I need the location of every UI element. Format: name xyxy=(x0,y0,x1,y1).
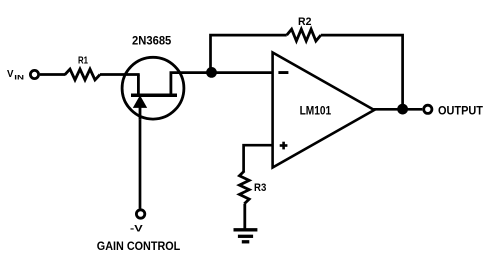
svg-text:-V: -V xyxy=(130,223,144,234)
svg-text:LM101: LM101 xyxy=(300,104,332,118)
wire R2 right down to node B xyxy=(321,35,403,109)
plus sign non-inverting input xyxy=(280,142,288,150)
label VIN xyxy=(7,69,24,81)
wire R1 to Q1 source xyxy=(100,73,140,76)
svg-text:IN: IN xyxy=(14,74,24,81)
svg-text:R2: R2 xyxy=(298,16,311,28)
svg-text:R1: R1 xyxy=(78,56,88,67)
wire node A up to R2 left xyxy=(211,35,287,73)
svg-text:OUTPUT: OUTPUT xyxy=(438,105,483,117)
op-amp U1 LM101 xyxy=(273,53,375,168)
transistor Q1 2N3685 (FET) xyxy=(122,57,184,120)
node A junction dot xyxy=(206,67,217,78)
svg-text:2N3685: 2N3685 xyxy=(132,34,172,48)
input terminal VIN xyxy=(30,70,38,78)
wire VIN terminal to R1 xyxy=(40,73,66,76)
wire non-inverting input to R3 xyxy=(244,145,273,171)
svg-text:R3: R3 xyxy=(254,182,266,194)
ground xyxy=(234,230,258,242)
svg-text:V: V xyxy=(7,69,14,80)
wire R3 to ground xyxy=(243,204,246,230)
wire op-amp output to node B xyxy=(374,108,403,111)
wire Q1 gate to gain control terminal xyxy=(139,120,142,209)
minus sign inverting input xyxy=(278,71,288,74)
wire node B to output terminal xyxy=(403,108,423,111)
svg-text:GAIN CONTROL: GAIN CONTROL xyxy=(97,241,181,253)
wire Q1 drain to node A xyxy=(170,71,212,74)
wire node A to op-amp inverting input xyxy=(212,71,273,74)
output terminal xyxy=(424,105,432,113)
resistor R3 xyxy=(239,171,249,204)
resistor R2 xyxy=(287,29,321,41)
node B output junction dot xyxy=(397,104,408,115)
gain control terminal -V xyxy=(136,210,144,218)
resistor R1 xyxy=(65,69,100,80)
